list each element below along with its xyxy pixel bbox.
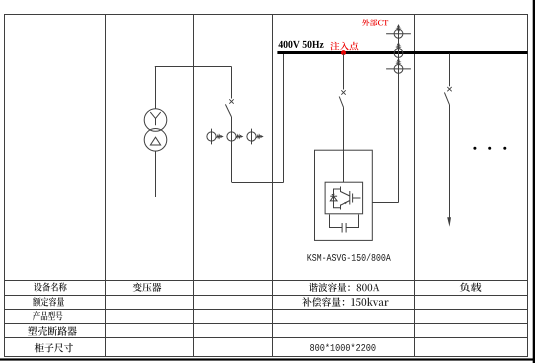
drawing frame thick bottom edge: [0, 358, 535, 360]
bianyaqi table text: [133, 283, 162, 292]
label waibuCT (red): [362, 19, 388, 26]
guizichicun table text: [35, 343, 73, 353]
CT row: CT A-phase: [211, 129, 213, 145]
external CT arrow mid: [397, 42, 400, 49]
table row line 3: [5, 309, 528, 311]
load arrow: [447, 217, 451, 226]
shebeimingcheng table text: [34, 282, 67, 291]
wire transformer top up: [155, 67, 157, 110]
wire breaker QF1 to CT row: [231, 117, 233, 182]
buchangrongliang table text: [302, 297, 388, 306]
IGBT Q1: [341, 187, 350, 210]
wire bus to breaker QF2: [343, 54, 345, 90]
edingrongliang table text: [33, 297, 64, 306]
fuzai table text: [460, 283, 482, 292]
column divider x=193: [193, 15, 195, 357]
label zhurudian (red): [330, 42, 358, 51]
wire horizontal y=182: [232, 182, 284, 184]
wire riser to bus x=283: [283, 54, 285, 183]
cabinet size table text: [310, 344, 375, 351]
wire down to breaker QF1: [231, 67, 233, 99]
ellipsis dot 2: [488, 147, 491, 150]
CT row: CT C-phase: [251, 129, 253, 145]
external CT arrow low: [397, 58, 400, 65]
breaker QF2: [341, 90, 345, 94]
anti-parallel diode D1: [334, 189, 341, 208]
column divider x=273: [272, 15, 274, 357]
external CT arrow top: [397, 24, 400, 31]
CT row: CT B-phase: [227, 132, 236, 141]
table row line 5: [5, 337, 528, 339]
SVG unit enclosure U1: [315, 150, 373, 240]
wire bus to breaker QF3: [449, 54, 451, 87]
wire breaker QF2 to SVG unit: [343, 107, 345, 182]
ellipsis dot 1: [473, 147, 476, 150]
label KSM-ASVG-150/800A: [307, 253, 390, 260]
label 400V 50Hz: [278, 41, 323, 48]
transformer T1 primary winding (Y): [144, 109, 167, 132]
wire breaker QF3 down: [449, 105, 451, 218]
breaker QF3: [447, 87, 451, 91]
injection point node (red dot): [341, 50, 346, 55]
external CT 1: [394, 29, 403, 38]
table row line 4: [5, 323, 528, 325]
table row line 1: [5, 280, 528, 282]
wire horizontal y=67: [155, 66, 232, 68]
ellipsis dot 3: [503, 147, 506, 150]
column divider x=414: [414, 15, 416, 357]
chanpinxinghao table text: [33, 311, 62, 320]
table row line 2: [5, 295, 528, 297]
bus bar 400V 50Hz: [277, 51, 527, 54]
breaker QF1: [229, 99, 233, 103]
suqiaoduanluqi table text: [28, 326, 77, 336]
drawing frame thick right edge: [533, 0, 535, 363]
sensing wire from SVG unit right side: [372, 202, 398, 204]
transformer T1 secondary winding (delta): [144, 129, 167, 152]
IGBT module box: [325, 182, 363, 214]
column divider x=105.5: [105, 15, 107, 357]
dc link capacitor C1: [330, 215, 359, 228]
external CT 2 (on bus): [394, 49, 403, 58]
IGBT gate: [353, 194, 361, 203]
transformer stub below: [155, 151, 157, 197]
external CT 3: [394, 65, 403, 74]
xieborongliang table text: [309, 283, 380, 292]
